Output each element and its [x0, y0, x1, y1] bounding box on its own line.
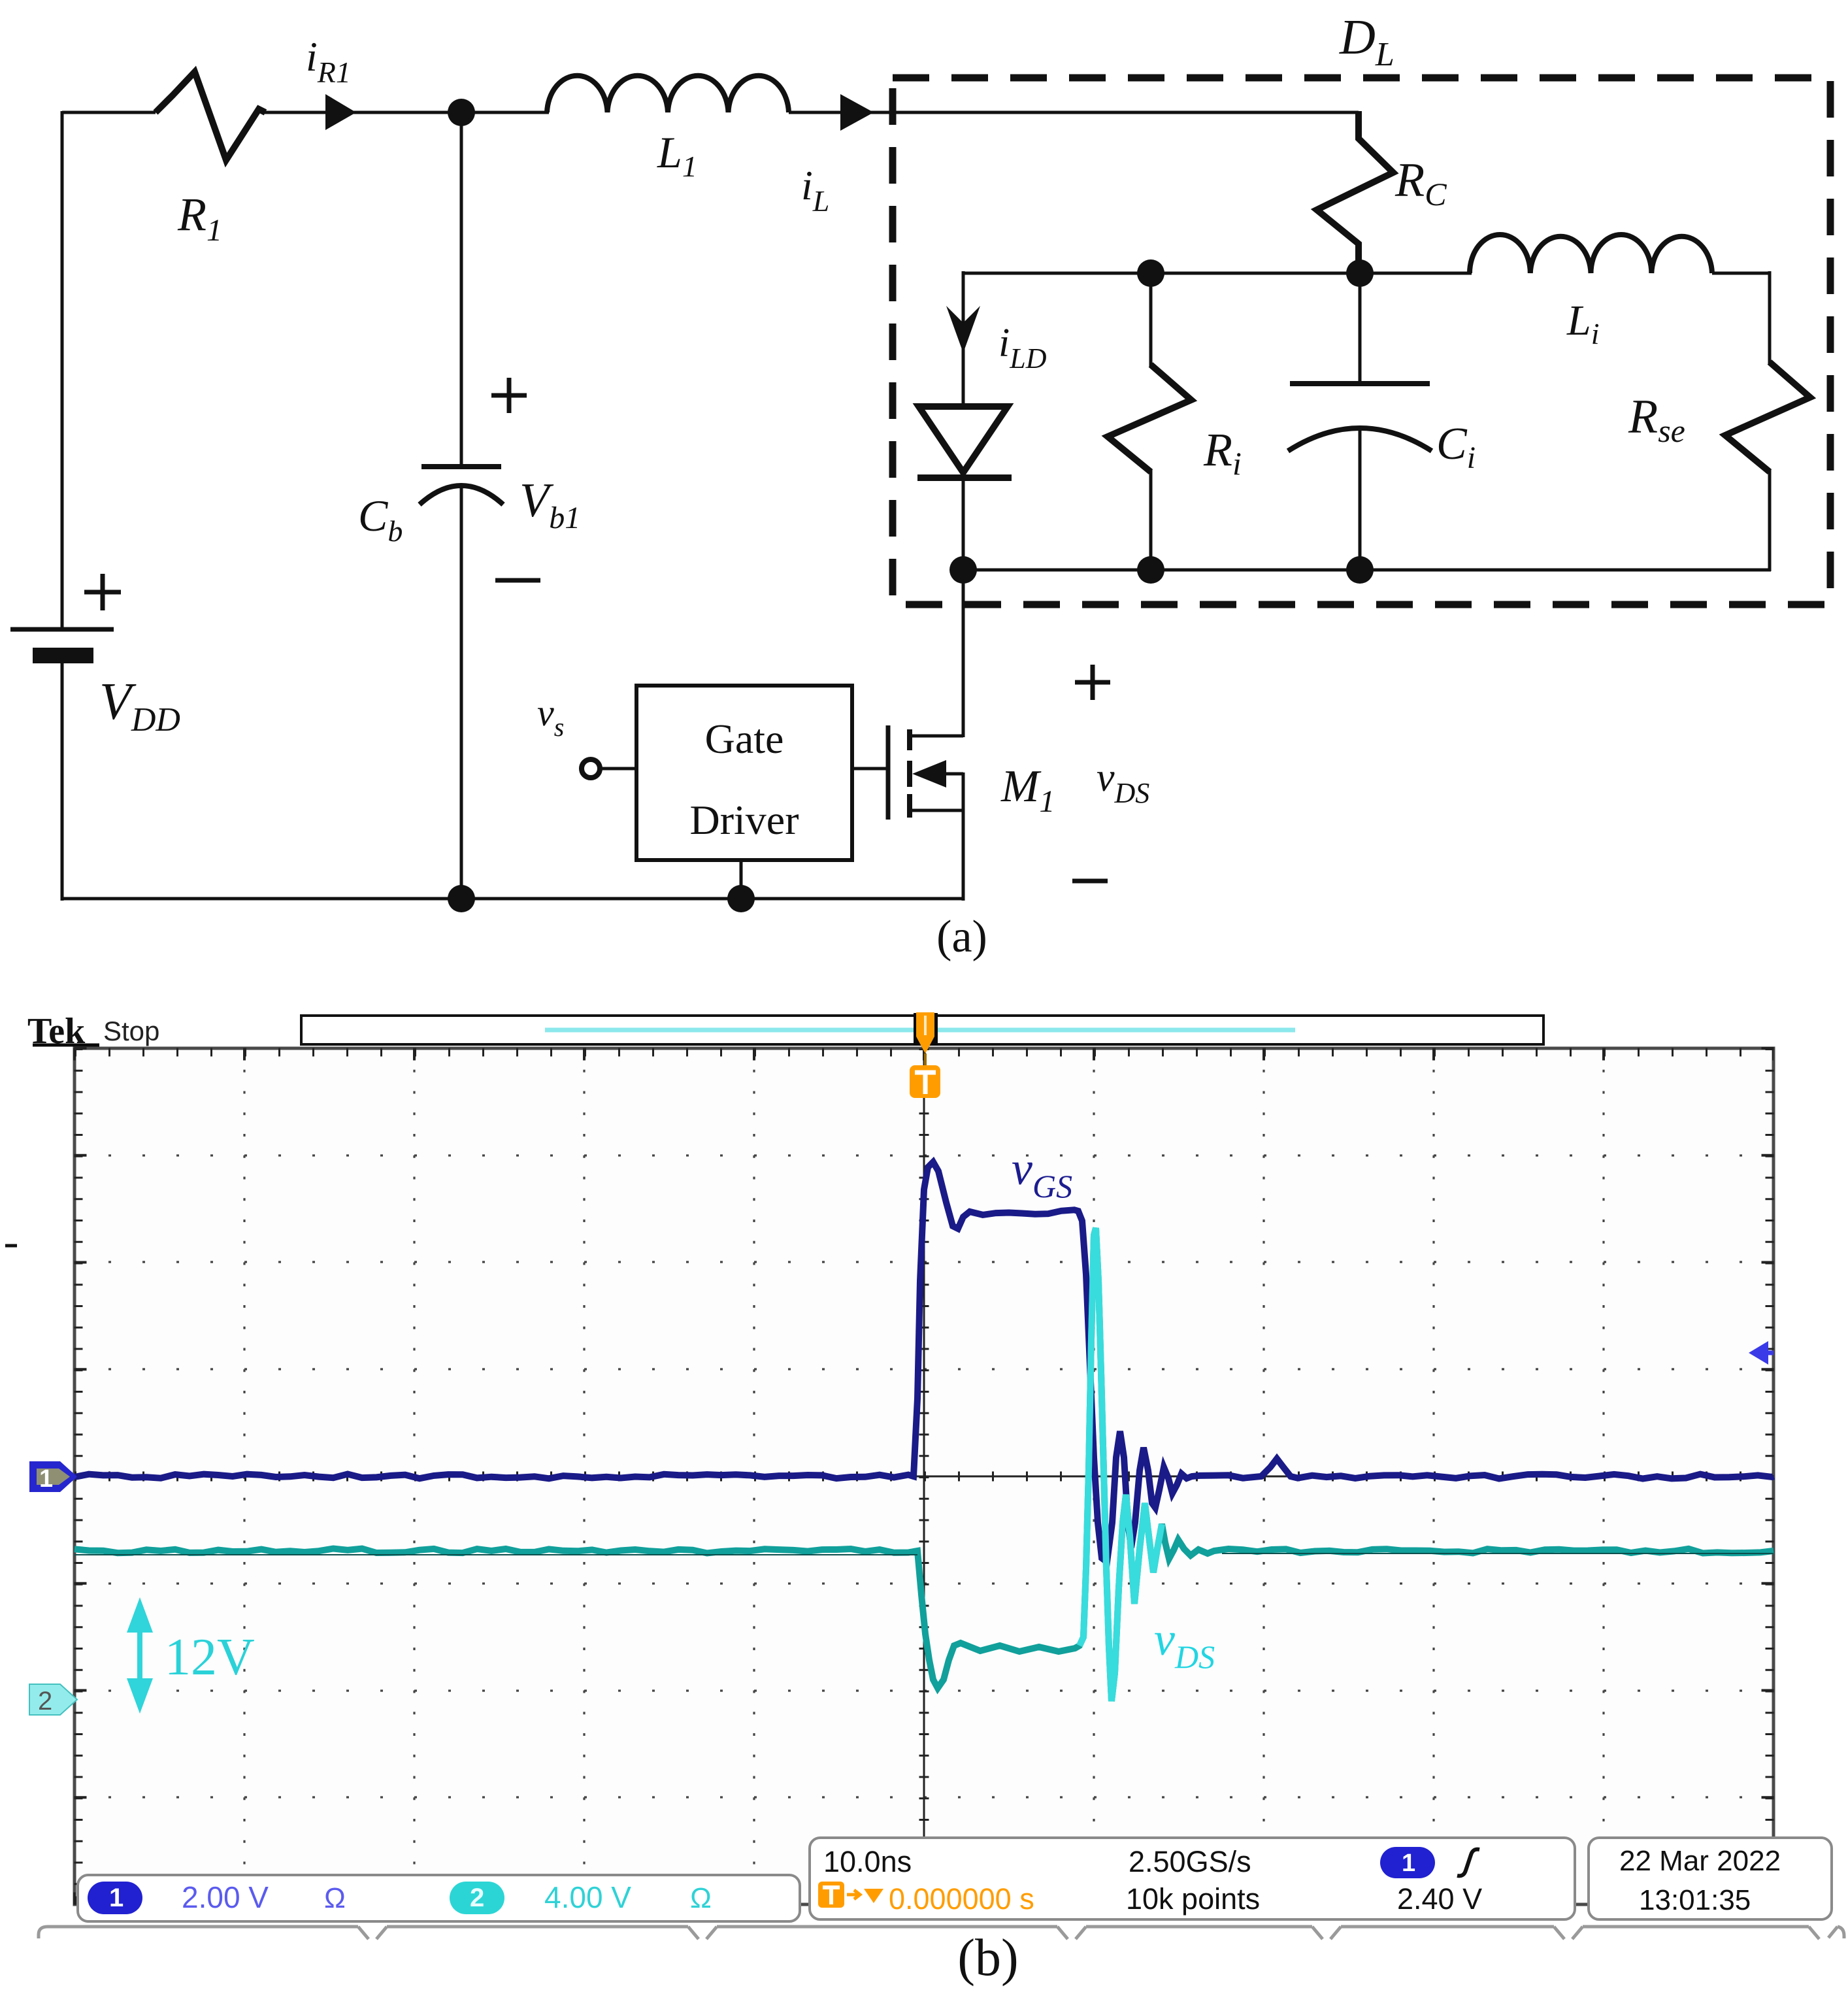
grid vertical dotted lines	[244, 1048, 1604, 1904]
label Cb	[358, 491, 403, 548]
minus vDS	[1072, 879, 1108, 884]
label L1	[657, 127, 697, 183]
label Rse	[1628, 390, 1685, 449]
svg-text:10.0ns: 10.0ns	[823, 1845, 912, 1878]
trigger level arrow	[1749, 1341, 1774, 1365]
annotation 12V arrow	[127, 1597, 153, 1714]
svg-text:1: 1	[39, 1465, 53, 1493]
input terminal vs	[582, 759, 636, 778]
center crosshair lines	[74, 1048, 1774, 1904]
label iR1	[306, 33, 351, 89]
label vDS	[1097, 755, 1149, 809]
svg-text:(b): (b)	[957, 1929, 1018, 1987]
svg-text:12V: 12V	[165, 1629, 255, 1686]
trace vGS blue	[74, 1162, 1774, 1562]
label (a)	[936, 912, 987, 962]
label R1	[177, 188, 222, 248]
label M1	[1000, 761, 1055, 819]
resistor Ri	[1108, 273, 1191, 571]
acquisition bar	[301, 1016, 1543, 1044]
svg-text:Gate: Gate	[705, 716, 784, 762]
wire diode branch	[962, 301, 965, 408]
resistor R1	[156, 72, 265, 160]
node H (driver gnd)	[727, 885, 755, 912]
trace vDS cyan	[74, 1228, 1774, 1701]
label Ci	[1436, 419, 1476, 475]
label vs	[537, 691, 564, 742]
laser diode LD	[917, 407, 1012, 571]
gate driver box U1	[636, 686, 852, 860]
tek logo	[27, 1011, 159, 1052]
resistor Rse	[1725, 271, 1810, 571]
node E (Ri bottom)	[1137, 556, 1164, 584]
label iLD	[998, 321, 1047, 374]
label Ri	[1203, 423, 1242, 482]
svg-text:2: 2	[470, 1884, 484, 1912]
wire box bottom rail	[963, 569, 1771, 572]
transistor M1	[852, 725, 963, 901]
wire driver ground	[740, 860, 743, 899]
plus vDS	[1075, 665, 1110, 700]
wire R1 to node	[261, 111, 463, 114]
label iL	[801, 162, 829, 218]
plus Vb1	[491, 378, 527, 413]
svg-text:22 Mar 2022: 22 Mar 2022	[1619, 1845, 1781, 1877]
svg-text:1: 1	[109, 1884, 124, 1912]
svg-text:13:01:35: 13:01:35	[1639, 1884, 1751, 1916]
svg-text:1: 1	[1402, 1850, 1415, 1877]
ch2 ground marker	[29, 1684, 77, 1716]
grid horizontal dotted lines	[74, 1155, 1774, 1797]
inductor L1	[547, 76, 789, 112]
small dash artifact	[5, 1244, 17, 1248]
label VDD	[99, 673, 180, 739]
battery VDD	[10, 574, 121, 663]
readout box timebase	[810, 1838, 1575, 1919]
node B (Ri top)	[1137, 259, 1164, 287]
resistor RC	[1317, 111, 1393, 274]
svg-text:Ω: Ω	[324, 1882, 346, 1914]
svg-text:4.00 V: 4.00 V	[544, 1880, 631, 1914]
wire node to L1	[461, 111, 549, 114]
svg-text:2.40 V: 2.40 V	[1397, 1882, 1482, 1916]
label RC	[1394, 154, 1447, 212]
svg-text:Stop: Stop	[103, 1016, 159, 1046]
graticule edge ticks	[73, 1047, 1774, 1904]
node D (LD bottom)	[949, 556, 977, 584]
node row wire	[963, 271, 1472, 307]
label vDS scope	[1154, 1613, 1215, 1675]
svg-text:0.000000 s: 0.000000 s	[889, 1882, 1034, 1916]
ch1 ground marker	[29, 1461, 77, 1493]
dashed box DL	[893, 78, 1830, 605]
annotation 12V text	[165, 1629, 255, 1686]
svg-text:2.50GS/s: 2.50GS/s	[1129, 1845, 1251, 1878]
label Vb1	[520, 474, 580, 535]
node C (RC/Ci)	[1346, 259, 1374, 287]
graticule background	[74, 1048, 1774, 1904]
svg-text:10k points: 10k points	[1126, 1882, 1260, 1916]
readout box datetime	[1589, 1838, 1832, 1919]
svg-text:2.00 V: 2.00 V	[182, 1880, 269, 1914]
label Li	[1566, 297, 1600, 350]
label (b)	[957, 1929, 1018, 1987]
wire left loop	[62, 111, 156, 901]
node A	[448, 99, 475, 126]
node F (Ci bottom)	[1346, 556, 1374, 584]
node G (Cb bottom)	[448, 885, 475, 912]
arrow iR1	[325, 94, 356, 130]
inductor Li	[1470, 235, 1771, 273]
label DL	[1339, 10, 1394, 73]
arrow iL	[840, 94, 874, 131]
svg-text:Driver: Driver	[689, 797, 799, 843]
wire L1 to box	[789, 111, 1359, 114]
label vGS	[1012, 1142, 1072, 1204]
wire drain riser	[962, 570, 965, 737]
capacitor Ci	[1288, 273, 1432, 571]
trigger T marker	[910, 1054, 940, 1098]
trigger position flag	[914, 1012, 938, 1054]
minus Vb1	[495, 578, 540, 583]
menu tab separators	[39, 1927, 1844, 1939]
svg-text:2: 2	[38, 1687, 52, 1716]
svg-text:Ω: Ω	[690, 1882, 712, 1914]
capacitor Cb	[420, 112, 503, 901]
wire bottom rail	[61, 897, 963, 901]
svg-text:(a): (a)	[936, 912, 987, 962]
arrow iLD	[946, 306, 980, 353]
readout box ch	[78, 1875, 800, 1921]
